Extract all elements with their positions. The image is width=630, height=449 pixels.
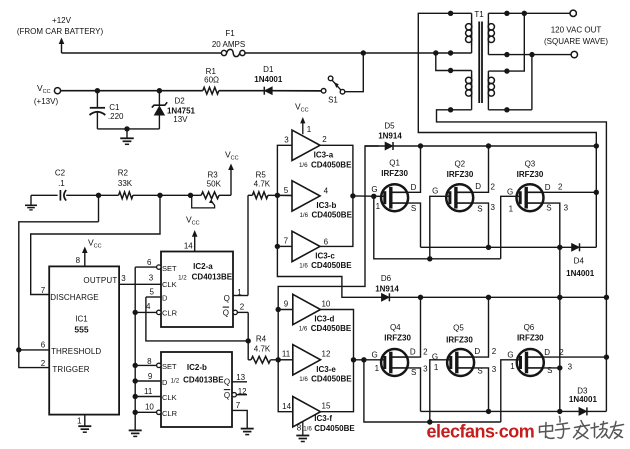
svg-text:CLR: CLR: [162, 409, 178, 418]
wire Vcc rail: [61, 90, 203, 92]
wire secondary top to output: [488, 12, 570, 14]
transformer secondary lower winding: [487, 75, 489, 98]
svg-text:F1: F1: [225, 29, 235, 38]
pin 1 Q output: [233, 295, 248, 297]
svg-text:IRFZ30: IRFZ30: [517, 334, 544, 343]
wire Q4 source: [407, 368, 421, 412]
pin 3 output wire: [119, 283, 161, 285]
op-amp IC3-c CD4050BE: [292, 231, 320, 261]
pin 8 SET IC2-b: [157, 363, 161, 367]
svg-text:7: 7: [41, 286, 46, 295]
svg-text:IC2-a: IC2-a: [193, 262, 213, 271]
wire C2 to R2: [66, 194, 118, 196]
svg-text:5: 5: [284, 186, 289, 195]
svg-text:8: 8: [147, 357, 152, 366]
svg-text:IRFZ30: IRFZ30: [384, 334, 411, 343]
svg-text:4.7K: 4.7K: [254, 345, 271, 354]
resistor R2 33K: [119, 192, 133, 199]
svg-text:1/2: 1/2: [171, 377, 180, 384]
wire IC2 ground rail: [134, 267, 136, 430]
svg-text:1N4001: 1N4001: [254, 75, 283, 84]
svg-text:IRFZ30: IRFZ30: [381, 169, 408, 178]
svg-text:7: 7: [236, 401, 241, 410]
svg-text:D: D: [411, 183, 417, 192]
svg-text:D6: D6: [381, 274, 392, 283]
svg-text:S: S: [477, 205, 482, 214]
svg-text:IC3-e: IC3-e: [316, 365, 336, 374]
svg-text:R3: R3: [207, 171, 218, 180]
svg-text:CLK: CLK: [162, 393, 177, 402]
wire source bus bottom: [421, 410, 579, 412]
svg-text:IC3-c: IC3-c: [315, 252, 335, 261]
svg-text:6: 6: [147, 258, 152, 267]
diode D1 1N4001: [264, 87, 272, 95]
svg-text:2: 2: [423, 347, 428, 356]
svg-text:3: 3: [149, 273, 154, 282]
svg-text:2: 2: [559, 348, 564, 357]
wire d-e-f bus to D5: [278, 146, 378, 310]
svg-text:IC3-a: IC3-a: [314, 151, 334, 160]
svg-text:13: 13: [236, 373, 245, 382]
svg-text:2: 2: [240, 303, 245, 312]
svg-text:CD4050BE: CD4050BE: [311, 160, 352, 169]
svg-text:1N4001: 1N4001: [566, 269, 595, 278]
svg-text:20 AMPS: 20 AMPS: [212, 40, 245, 49]
svg-text:S1: S1: [328, 96, 338, 105]
svg-text:Q3: Q3: [525, 160, 536, 169]
terminal 120VAC out 1: [570, 10, 576, 16]
watermark chinese characters: [540, 417, 624, 440]
svg-text:CLR: CLR: [162, 309, 178, 318]
svg-text:G: G: [371, 185, 377, 194]
svg-text:4: 4: [324, 187, 329, 196]
pin 4 CLR: [157, 310, 161, 314]
wire output bus a-b-c: [320, 145, 353, 246]
wire b input: [277, 194, 292, 196]
svg-text:12: 12: [238, 387, 247, 396]
wire Q4 drain: [407, 297, 421, 357]
node winding dot upper-left: [448, 50, 453, 55]
wire R2/R3 node to discharge: [31, 195, 160, 294]
svg-text:D: D: [474, 347, 480, 356]
diode D4 1N4001: [572, 243, 580, 251]
pin 7 Vss IC2-b: [232, 410, 247, 428]
pin 6 SET: [157, 265, 161, 269]
wire secondary lower bottom: [488, 109, 532, 111]
svg-text:9: 9: [284, 300, 289, 309]
svg-text:SET: SET: [162, 362, 177, 371]
svg-text:T1: T1: [474, 10, 484, 19]
svg-text:7: 7: [284, 237, 289, 246]
svg-text:TRIGGER: TRIGGER: [52, 365, 89, 374]
wire Q5 drain: [473, 297, 489, 357]
svg-text:D5: D5: [384, 122, 395, 131]
svg-text:1N914: 1N914: [375, 285, 399, 294]
svg-text:CD4013BE: CD4013BE: [192, 273, 233, 282]
wire input bus d-e-f: [278, 310, 293, 412]
wire Q6 gate: [501, 360, 520, 422]
op-amp U IC1 555 box: [49, 266, 119, 414]
svg-text:(FROM CAR BATTERY): (FROM CAR BATTERY): [17, 27, 104, 36]
svg-text:S: S: [547, 366, 552, 375]
svg-text:C1: C1: [109, 103, 120, 112]
wire S1 branch: [345, 53, 363, 92]
svg-text:SET: SET: [162, 264, 177, 273]
op-amp IC3-a CD4050BE: [292, 130, 320, 160]
svg-text:2: 2: [558, 183, 563, 192]
svg-text:OUTPUT: OUTPUT: [83, 276, 117, 285]
pin 11 CLK IC2-b: [135, 396, 161, 398]
svg-text:.220: .220: [108, 112, 124, 121]
transformer T1 core: [478, 22, 480, 104]
transformer primary lower winding: [471, 75, 473, 98]
svg-text:S: S: [411, 368, 416, 377]
wire R1 to D1: [219, 90, 264, 92]
wire gate bus top: [353, 195, 384, 197]
wire secondary series link: [488, 13, 524, 71]
svg-text:S: S: [477, 367, 482, 376]
capacitor C2 .1: [59, 190, 61, 201]
transistor Q2 IRFZ30: [446, 184, 473, 211]
svg-text:R4: R4: [256, 335, 267, 344]
svg-text:1/6: 1/6: [299, 162, 308, 169]
wire R3 to Vcc arrow: [219, 194, 231, 196]
transistor Q5 IRFZ30: [447, 349, 474, 376]
wire +12V top rail to fuse: [62, 52, 222, 54]
pin 2 Q-bar output: [233, 310, 237, 314]
svg-text:9: 9: [148, 372, 153, 381]
svg-text:Q: Q: [224, 378, 230, 387]
wire Q3 source: [542, 203, 559, 411]
svg-text:D: D: [410, 347, 416, 356]
svg-text:CD4050BE: CD4050BE: [314, 424, 355, 433]
svg-text:CD4013BE: CD4013BE: [183, 375, 224, 384]
wire primary bottom to drain node B: [437, 110, 607, 412]
pin 9 D IC2-b: [135, 380, 161, 382]
junction R3 wiper return: [188, 193, 193, 198]
junction e input: [276, 357, 281, 362]
svg-text:1: 1: [509, 205, 514, 214]
wire Q2 source: [472, 203, 488, 247]
wire center-tap link: [436, 53, 472, 71]
flip-flop IC2-a CD4013BE box: [161, 252, 233, 328]
wire primary top to drain node A: [418, 13, 596, 247]
svg-text:Q5: Q5: [453, 324, 464, 333]
svg-text:14: 14: [282, 402, 291, 411]
wire e input: [278, 359, 293, 361]
wire source bus top: [421, 246, 572, 248]
svg-text:1/6: 1/6: [299, 376, 308, 383]
svg-text:1N914: 1N914: [378, 132, 402, 141]
wire c input: [277, 245, 292, 247]
svg-text:12: 12: [322, 349, 331, 358]
svg-text:2: 2: [322, 135, 327, 144]
pin 8 Vss ground IC3-f: [302, 421, 304, 435]
svg-text:3: 3: [121, 274, 126, 283]
wire to threshold/trigger: [19, 222, 99, 368]
resistor R1: [203, 87, 219, 94]
svg-text:Q2: Q2: [454, 160, 465, 169]
svg-text:1/2: 1/2: [178, 274, 187, 281]
op-amp IC3-d CD4050BE: [293, 294, 321, 324]
wire Q1 source: [407, 203, 421, 247]
svg-text:10: 10: [321, 300, 330, 309]
diode D6 1N914: [381, 293, 389, 301]
wire input bus a-b-c: [277, 145, 381, 297]
junction D2 tap: [157, 88, 162, 93]
svg-text:IRFZ30: IRFZ30: [517, 170, 544, 179]
arrow Vcc at R3: [230, 168, 232, 196]
op-amp IC3-f CD4050BE: [293, 397, 321, 427]
svg-text:1N4001: 1N4001: [569, 395, 598, 404]
svg-text:2: 2: [490, 182, 495, 191]
svg-text:CD4050BE: CD4050BE: [311, 375, 352, 384]
ground IC2 rail: [129, 429, 142, 431]
svg-text:11: 11: [282, 349, 291, 358]
svg-text:8: 8: [297, 423, 302, 432]
junction winding dot: [448, 11, 453, 16]
diode D5 1N914: [365, 145, 385, 147]
wire D to Q-bar loop: [146, 297, 248, 341]
svg-text:120 VAC OUT: 120 VAC OUT: [551, 25, 602, 34]
svg-text:3: 3: [564, 203, 569, 212]
svg-text:33K: 33K: [118, 179, 133, 188]
svg-text:CD4050BE: CD4050BE: [311, 211, 352, 220]
junction b input: [275, 193, 280, 198]
svg-text:3: 3: [423, 364, 428, 373]
op-amp IC3-e CD4050BE: [293, 345, 321, 375]
svg-text:Q: Q: [224, 391, 230, 400]
junction center-tap link: [433, 50, 438, 55]
svg-text:Q: Q: [223, 308, 229, 317]
wire Q3 drain: [542, 191, 596, 193]
svg-text:3: 3: [492, 365, 497, 374]
wire Q5 source: [473, 368, 489, 412]
transistor Q3 IRFZ30: [517, 184, 544, 211]
wire D1 to S1: [272, 90, 321, 92]
svg-text:(+13V): (+13V): [34, 97, 59, 106]
pin 10 CLR IC2-b: [157, 410, 161, 414]
svg-text:CD4050BE: CD4050BE: [311, 261, 352, 270]
svg-text:CD4050BE: CD4050BE: [311, 324, 352, 333]
svg-text:IRFZ30: IRFZ30: [447, 170, 474, 179]
svg-text:1: 1: [307, 125, 312, 134]
svg-text:(SQUARE WAVE): (SQUARE WAVE): [544, 37, 608, 46]
ground IC2-b pin7: [241, 428, 254, 430]
svg-text:555: 555: [74, 325, 88, 335]
wire Q6 source: [543, 367, 560, 369]
svg-text:1/6: 1/6: [299, 263, 308, 270]
wire fuse to transformer center-tap rail: [245, 52, 472, 54]
svg-text:6: 6: [41, 341, 46, 350]
svg-text:CLK: CLK: [162, 280, 177, 289]
wire drain bus top: [393, 145, 596, 147]
svg-text:3: 3: [490, 203, 495, 212]
wire Q up to R5: [247, 195, 249, 295]
op-amp IC3-b CD4050BE: [292, 181, 320, 211]
wire D3 to drain node B: [587, 410, 607, 412]
svg-text:IC3-b: IC3-b: [316, 201, 336, 210]
junction d input: [276, 307, 281, 312]
svg-text:10: 10: [145, 403, 154, 412]
svg-text:C2: C2: [55, 168, 66, 177]
potentiometer R3 50K: [201, 192, 219, 199]
svg-text:4.7K: 4.7K: [254, 179, 271, 188]
svg-text:G: G: [432, 352, 438, 361]
pin 12 Q-bar IC2-b: [232, 393, 236, 397]
junction R2/R3 node: [157, 193, 162, 198]
transformer secondary upper winding: [487, 22, 489, 45]
svg-text:2: 2: [492, 347, 497, 356]
wire timing node down: [98, 195, 100, 222]
svg-text:elecfans·com: elecfans·com: [427, 422, 535, 442]
svg-text:Q6: Q6: [524, 323, 535, 332]
capacitor C1 .220: [96, 91, 98, 108]
flip-flop IC2-b CD4013BE box: [161, 352, 232, 427]
wire Q-bar down to R4: [247, 312, 249, 359]
svg-text:S: S: [411, 204, 416, 213]
pin 1 ground 555: [84, 415, 86, 426]
wire C1-D2 bottom: [97, 128, 159, 130]
svg-text:1: 1: [510, 362, 515, 371]
svg-text:D2: D2: [174, 97, 185, 106]
wire R5 to buffer inputs: [268, 194, 292, 196]
svg-text:1: 1: [375, 364, 380, 373]
svg-text:DISCHARGE: DISCHARGE: [50, 293, 98, 302]
svg-text:D4: D4: [574, 257, 585, 266]
svg-text:1: 1: [434, 363, 439, 372]
svg-text:G: G: [507, 188, 513, 197]
svg-text:1: 1: [376, 202, 381, 211]
pin 5 D: [146, 296, 161, 298]
junction threshold tap: [16, 347, 21, 352]
svg-text:1/6: 1/6: [299, 212, 308, 219]
svg-text:50K: 50K: [207, 179, 222, 188]
svg-text:Q: Q: [224, 294, 230, 303]
junction C1 tap: [95, 88, 100, 93]
switch S1: [321, 89, 326, 94]
wire output bus d-e-f: [321, 310, 354, 412]
junction D loop on Q-bar: [246, 338, 251, 343]
wiper arrow R3: [209, 199, 214, 203]
svg-text:3: 3: [568, 363, 573, 372]
resistor R4 4.7K: [248, 359, 251, 361]
svg-text:G: G: [507, 351, 513, 360]
svg-text:D1: D1: [263, 65, 274, 74]
wire R4 to buffer inputs: [271, 359, 293, 361]
svg-text:IC1: IC1: [75, 315, 88, 324]
arrow +12V feed: [61, 42, 63, 54]
transistor Q6 IRFZ30: [517, 349, 544, 376]
svg-text:.1: .1: [58, 179, 65, 188]
svg-text:D: D: [475, 182, 481, 191]
wire Q5 gate: [430, 360, 451, 422]
svg-text:5: 5: [149, 287, 154, 296]
svg-text:G: G: [371, 351, 377, 360]
svg-text:R2: R2: [118, 168, 129, 177]
transistor Q1 IRFZ30: [381, 184, 408, 211]
wire threshold: [19, 349, 49, 351]
wire Q1 drain: [407, 146, 421, 192]
wire Q2 drain: [472, 146, 488, 192]
pin 1 Vdd arrow IC3-a: [302, 123, 304, 135]
svg-text:6: 6: [324, 237, 329, 246]
svg-text:60Ω: 60Ω: [204, 76, 219, 85]
svg-text:D: D: [545, 183, 551, 192]
wire gate bus bottom: [354, 359, 385, 361]
junction e output: [351, 357, 356, 362]
wire Q2 gate: [430, 196, 450, 258]
svg-text:IC2-b: IC2-b: [187, 363, 207, 372]
zener D2 1N4751: [158, 91, 160, 106]
svg-text:THRESHOLD: THRESHOLD: [51, 347, 101, 356]
svg-text:IRFZ30: IRFZ30: [446, 335, 473, 344]
svg-text:8: 8: [76, 256, 81, 265]
wire drain bus bottom: [389, 296, 606, 298]
svg-text:IC3-d: IC3-d: [314, 314, 334, 323]
junction ground tap: [124, 126, 129, 131]
diode D3 1N4001: [579, 407, 587, 415]
svg-text:14: 14: [184, 241, 193, 250]
svg-text:Q1: Q1: [389, 158, 400, 167]
transformer primary upper winding: [471, 22, 473, 45]
ground under C1/D2: [126, 129, 128, 138]
svg-text:D: D: [162, 378, 168, 387]
svg-text:D: D: [162, 293, 168, 302]
svg-text:11: 11: [144, 387, 153, 396]
svg-text:S: S: [546, 204, 551, 213]
wire R2 to R3: [133, 194, 201, 196]
svg-text:4: 4: [146, 302, 151, 311]
resistor R5 4.7K: [248, 194, 252, 196]
svg-text:G: G: [432, 187, 438, 196]
svg-text:2: 2: [41, 359, 46, 368]
svg-text:15: 15: [322, 402, 331, 411]
ground at C2: [31, 194, 58, 196]
svg-text:R5: R5: [256, 171, 267, 180]
wire Q6 drain: [543, 356, 607, 358]
wire secondary bottom: [488, 54, 571, 56]
pin 14 Vcc IC2-a: [194, 236, 196, 252]
pin 8 Vcc 555: [84, 252, 86, 266]
transistor Q4 IRFZ30: [381, 349, 408, 376]
junction CLR ground rail: [133, 310, 138, 315]
svg-text:1: 1: [237, 288, 242, 297]
svg-text:Q4: Q4: [390, 323, 401, 332]
svg-text:3: 3: [284, 136, 289, 145]
junction S1 branch: [361, 50, 366, 55]
junction b output: [350, 193, 355, 198]
wire D4 to drain node A: [580, 246, 597, 248]
svg-text:+12V: +12V: [52, 16, 72, 25]
junction timing node: [96, 193, 101, 198]
terminal Vcc +13V: [54, 88, 60, 94]
svg-text:1/6: 1/6: [299, 325, 308, 332]
fuse F1: [221, 50, 226, 55]
terminal 120VAC out 2: [571, 51, 577, 57]
svg-text:1: 1: [77, 417, 82, 426]
pin 13 Q IC2-b: [232, 381, 247, 383]
svg-text:IC3-f: IC3-f: [314, 414, 332, 423]
svg-text:D: D: [544, 348, 550, 357]
svg-text:13V: 13V: [173, 115, 188, 124]
junction c input: [275, 244, 280, 249]
wire Q3 gate: [501, 196, 520, 258]
svg-text:1/6: 1/6: [303, 425, 312, 432]
